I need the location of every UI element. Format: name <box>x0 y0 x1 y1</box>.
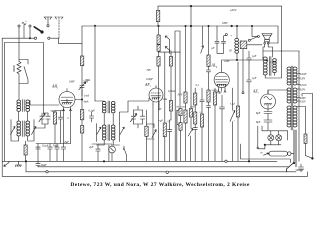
bracket x177 <box>177 110 179 126</box>
cap 8uF b <box>264 120 272 130</box>
pot box upper <box>157 35 160 44</box>
coil bottoms <box>11 137 34 145</box>
wire row y42.5 <box>5 43 44 114</box>
svg-text:Detewe, 723 W, und Nora, W 27: Detewe, 723 W, und Nora, W 27 Walküre, W… <box>70 182 250 188</box>
output transformer secondary <box>273 59 277 73</box>
svg-text:μF: μF <box>212 47 215 50</box>
value labels middle <box>154 90 236 123</box>
C2 C3 rails <box>134 106 143 128</box>
cap x57 <box>55 144 59 162</box>
AL4 anode wire <box>222 57 263 60</box>
arrow 17mA <box>265 60 269 62</box>
cap 50uF <box>48 144 52 162</box>
T4 core <box>108 125 110 141</box>
wire squiggle drop <box>23 25 25 39</box>
svg-text:m: m <box>261 152 263 155</box>
svg-text:50000: 50000 <box>212 90 218 92</box>
svg-text:4mA: 4mA <box>84 101 89 104</box>
R1 right drop <box>281 6 283 51</box>
bus B2 <box>38 166 289 168</box>
variable cap C1b <box>46 113 50 124</box>
svg-text:0,1: 0,1 <box>154 99 157 101</box>
AH1 cathode cap <box>58 111 62 144</box>
variable cap C2 <box>130 110 136 124</box>
choke bottom <box>236 53 238 60</box>
svg-text:2MΩ: 2MΩ <box>163 99 168 101</box>
resistor box det right <box>170 52 172 100</box>
svg-text:0,1: 0,1 <box>196 84 200 87</box>
dial lamp a <box>268 135 274 141</box>
AH1 cathode resistor <box>55 111 64 113</box>
vertical x305.5 resistor <box>305 107 307 135</box>
mains switch <box>287 130 297 172</box>
svg-text:100pF: 100pF <box>146 78 153 81</box>
cap col x223.5 <box>221 36 225 53</box>
resistor box R1-R2 <box>157 6 159 26</box>
resistor box anode 1 <box>80 110 83 120</box>
antenna A2 dashed <box>55 17 63 38</box>
svg-text:b: b <box>26 20 28 23</box>
jack circle 2 <box>48 37 50 39</box>
fixed cap C3 <box>140 110 144 124</box>
output transformer bottom wires <box>265 51 281 78</box>
wire x243 <box>242 49 244 92</box>
band switch arrow T4 left <box>97 127 101 135</box>
svg-text:AL₄: AL₄ <box>211 64 218 68</box>
wire terminal drop A <box>29 27 31 38</box>
mains cap 5000pF <box>299 164 304 172</box>
switch col x190.5 <box>190 26 192 109</box>
power transformer secondary windings <box>293 67 297 127</box>
band switch arrow left <box>11 127 16 135</box>
switch col x202 <box>201 26 204 53</box>
power transformer core <box>291 66 293 130</box>
lamp top wire <box>262 126 288 140</box>
grid wire T4 to AF7 <box>120 98 150 124</box>
coupling squiggle <box>22 22 26 24</box>
pot wiper stem <box>169 40 171 52</box>
coil T3 left <box>102 102 106 113</box>
pot wiper arrow 1 <box>165 36 169 40</box>
switch mid <box>123 146 126 161</box>
svg-text:1MΩ: 1MΩ <box>85 79 91 82</box>
vertical x299 <box>298 51 300 161</box>
voltage selector lever <box>306 156 312 159</box>
bus B1 <box>2 160 277 162</box>
terminal circle x226 <box>225 34 227 36</box>
cap col x217 <box>215 26 224 53</box>
svg-text:3000: 3000 <box>190 106 195 108</box>
svg-text:AZ₁: AZ₁ <box>252 90 259 94</box>
terminal circle x243 <box>242 92 244 94</box>
svg-text:30: 30 <box>229 50 232 53</box>
svg-text:0,55V: 0,55V <box>300 84 307 87</box>
jack circle <box>109 146 116 153</box>
svg-text:1μF: 1μF <box>252 77 257 80</box>
coil T3 right <box>111 102 115 113</box>
AZ1 anode feed <box>268 89 288 91</box>
svg-text:30V: 30V <box>147 69 152 72</box>
svg-text:2μF: 2μF <box>89 146 94 149</box>
tube AZ1 <box>261 90 276 109</box>
output transformer primary <box>263 57 267 75</box>
left frame wire 2 <box>4 43 6 162</box>
switch lever (antenna) <box>34 27 42 32</box>
wire row y38 right <box>50 38 82 44</box>
left frame wire 1 <box>1 38 3 176</box>
switch branch <box>19 60 28 84</box>
T1 core <box>23 100 25 112</box>
cap 1uF b <box>247 73 251 85</box>
detector frame verticals <box>175 31 180 52</box>
heater line y159 <box>241 144 291 163</box>
col x202 cap <box>200 88 204 114</box>
svg-text:180V: 180V <box>69 80 75 83</box>
R2 drop resistor wire <box>81 26 83 56</box>
svg-text:0,1μF: 0,1μF <box>42 145 49 148</box>
col x195 <box>194 88 196 93</box>
resistor box det left <box>158 52 160 161</box>
vertical x191 <box>190 6 192 26</box>
cap row link <box>36 144 71 162</box>
transformer taps <box>297 74 300 102</box>
terminal E <box>18 25 20 27</box>
variable cap C1a <box>39 113 45 124</box>
svg-text:0,1: 0,1 <box>200 112 203 114</box>
svg-text:0,3mA: 0,3mA <box>168 90 175 93</box>
AL4 pin arrows <box>218 91 227 93</box>
B1 dots <box>103 161 105 163</box>
coupling cap horizontal <box>159 51 181 54</box>
ground 2 <box>15 161 21 166</box>
tube AH1 <box>59 89 75 111</box>
svg-text:240V: 240V <box>224 60 230 63</box>
resistor box anode 2 <box>81 120 83 126</box>
tube AF7 <box>149 86 163 105</box>
speaker wires <box>263 43 278 57</box>
wire y51 <box>263 50 299 52</box>
choke coil <box>235 38 239 41</box>
output transformer core <box>269 57 271 76</box>
col x185.5 <box>185 26 187 92</box>
col x176.8 <box>176 110 178 161</box>
svg-text:8μF: 8μF <box>256 112 261 115</box>
heater return wire <box>258 126 265 149</box>
T3 feed <box>95 100 104 103</box>
pot column top <box>158 26 160 35</box>
col x166 <box>164 52 166 123</box>
svg-text:0,94V: 0,94V <box>300 73 307 76</box>
cap x169.7 <box>168 120 172 161</box>
svg-text:1μF: 1μF <box>218 92 223 95</box>
svg-text:≈: ≈ <box>234 120 236 123</box>
wire terminal drop E <box>18 27 20 61</box>
cap x222 <box>220 95 225 161</box>
cap 8uF a <box>264 109 272 120</box>
svg-text:180V: 180V <box>222 22 228 25</box>
svg-text:4,65V: 4,65V <box>230 9 237 12</box>
col x208.5 low <box>208 25 209 26</box>
vertical x312.5 <box>312 94 314 159</box>
svg-text:0,9V: 0,9V <box>300 88 305 91</box>
rail R1 <box>158 5 282 7</box>
speaker field coil box <box>240 41 247 49</box>
cap 60uF <box>36 161 40 167</box>
wire coil to AH1 <box>30 101 59 106</box>
tuning coil T1 left <box>17 100 21 111</box>
R2 dot x231.7 <box>231 25 233 27</box>
trimmer cap <box>79 82 86 96</box>
tuning coil T2 right <box>26 121 30 136</box>
rail R2 <box>82 26 278 43</box>
cap 1uF a <box>247 51 251 63</box>
resistor box AF <box>145 126 148 136</box>
svg-text:4V: 4V <box>159 108 162 111</box>
C1 rail <box>34 113 48 128</box>
svg-text:50000: 50000 <box>181 107 187 109</box>
svg-text:AH₁: AH₁ <box>51 85 59 89</box>
coil T4 left <box>102 125 106 140</box>
resistor box 50000 <box>80 56 83 66</box>
AH1 pin wires <box>64 111 71 144</box>
svg-text:≈μF: ≈μF <box>159 120 164 123</box>
long vertical x96 <box>94 26 96 101</box>
jack circle 1 <box>34 37 36 39</box>
col x180.5 down <box>179 52 181 109</box>
svg-text:h: h <box>67 117 69 120</box>
svg-text:1mA: 1mA <box>84 95 89 98</box>
loudspeaker horn <box>262 34 272 40</box>
frame bottom <box>2 172 307 177</box>
cap 1uF c <box>61 144 65 162</box>
AH1 anode link <box>75 99 82 101</box>
B3 open circle 2 <box>166 171 168 173</box>
vertical x249 <box>248 63 250 161</box>
wire trimmer down <box>81 90 83 110</box>
AF7 pin wires <box>153 105 159 162</box>
fuse holder <box>269 151 288 156</box>
pot box lower <box>157 45 160 52</box>
power transformer primary windings <box>287 67 291 127</box>
col x237 choke feed <box>236 26 238 39</box>
speaker terminals <box>264 42 266 44</box>
B1 open node <box>225 160 227 162</box>
junction <box>29 38 30 39</box>
cap x38 <box>36 147 40 149</box>
terminal A <box>29 25 31 27</box>
resistor 30000 zigzag <box>17 62 21 100</box>
T3-T4 links <box>97 114 120 142</box>
AH1 pin arrows <box>63 109 72 111</box>
pot wiper arrow 2 <box>165 47 169 51</box>
svg-text:≈: ≈ <box>231 35 233 38</box>
tube AL4 <box>214 60 229 91</box>
T3 core <box>108 101 110 113</box>
switch branch <box>147 124 157 139</box>
svg-text:3,9V: 3,9V <box>300 77 305 80</box>
B3 open circle 1 <box>46 171 48 173</box>
lamp bottom wire <box>265 141 281 145</box>
cap 8uF link <box>267 119 269 122</box>
coupling cap 0.1uF <box>89 112 93 122</box>
ground 1 <box>4 161 9 166</box>
detector cap mid <box>92 144 104 161</box>
coil T4 right <box>111 125 115 140</box>
col x215 <box>214 88 216 92</box>
tuning coil T1 right <box>26 100 30 111</box>
svg-text:0,5: 0,5 <box>168 121 172 123</box>
AF resistor wires <box>146 110 148 161</box>
R1 node dot <box>190 5 192 7</box>
taps to verticals <box>268 90 313 107</box>
T2 core <box>23 121 25 137</box>
bus B3 <box>26 161 296 172</box>
speaker switch <box>248 39 250 41</box>
R2 node dot <box>190 25 192 27</box>
resistor box x208 upper <box>208 26 210 55</box>
svg-text:1M: 1M <box>176 107 179 109</box>
coil block frame <box>11 112 34 138</box>
svg-text:110V: 110V <box>300 100 306 103</box>
svg-text:1μF: 1μF <box>252 55 257 58</box>
T4 bottoms <box>97 141 120 162</box>
svg-text:5000pF: 5000pF <box>296 169 305 172</box>
fuse out wire <box>291 153 294 155</box>
svg-text:8μF: 8μF <box>256 121 261 124</box>
speaker switch feed <box>252 26 257 36</box>
antenna A1 <box>44 17 52 27</box>
wire row y38 left <box>2 37 34 39</box>
svg-text:0,1μF: 0,1μF <box>230 104 236 106</box>
svg-text:AF₇: AF₇ <box>144 83 152 87</box>
dial lamp b <box>276 135 282 141</box>
wire below box <box>81 66 83 83</box>
tuning coil T2 left <box>17 121 21 136</box>
col x175 down <box>174 52 176 161</box>
svg-text:30000: 30000 <box>13 65 16 72</box>
switch col x232.5 <box>230 88 235 161</box>
band switch arrow T4 right <box>120 127 124 135</box>
svg-text:0,1μF: 0,1μF <box>89 110 96 113</box>
resistor box coil bottom <box>24 145 27 155</box>
band switch arrow right <box>32 127 37 135</box>
